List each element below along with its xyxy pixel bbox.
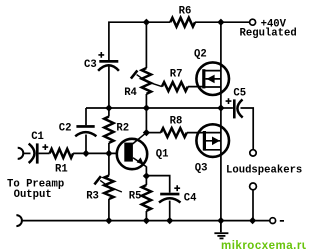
junction emitter node xyxy=(143,172,150,179)
resistor R6 xyxy=(170,18,195,27)
svg-text:C4: C4 xyxy=(184,193,197,205)
junction rail at C4 xyxy=(166,217,173,224)
svg-text:mikrocxema.ru: mikrocxema.ru xyxy=(221,240,306,251)
junction rail at ground xyxy=(217,217,224,224)
potentiometer R4 xyxy=(131,22,162,108)
svg-text:C3: C3 xyxy=(84,59,97,71)
wire emitter node to C4 xyxy=(146,176,169,193)
junction mid wire at R2 xyxy=(105,104,112,111)
transistor Q1 xyxy=(117,133,147,170)
wire base (input node) xyxy=(73,152,125,154)
svg-text:C2: C2 xyxy=(59,122,72,134)
svg-text:R3: R3 xyxy=(86,190,99,202)
svg-text:Q1: Q1 xyxy=(156,148,169,160)
junction mid wire at R4 xyxy=(143,104,150,111)
svg-text:R2: R2 xyxy=(116,123,129,135)
svg-text:C1: C1 xyxy=(31,131,44,143)
junction rail at R3 xyxy=(105,217,112,224)
wire right vertical (Q2-Q3 channel) xyxy=(220,22,222,220)
resistor R8 xyxy=(146,128,204,137)
wire Q1 emitter down xyxy=(145,167,147,177)
wire top rail right segment xyxy=(195,21,249,23)
junction top rail at R4 xyxy=(143,19,150,26)
input jack top xyxy=(18,148,24,159)
svg-text:R6: R6 xyxy=(179,5,192,17)
wire C3 to mid rail xyxy=(108,67,110,109)
svg-text:Loudspeakers: Loudspeakers xyxy=(226,165,302,177)
capacitor C1 xyxy=(29,143,49,163)
wire C5 to speaker terminal xyxy=(241,108,254,149)
svg-text:R5: R5 xyxy=(129,191,142,203)
wire C2 top lead xyxy=(85,108,87,125)
svg-text:R4: R4 xyxy=(124,87,137,99)
terminal loudspeaker top xyxy=(250,150,256,156)
ground xyxy=(214,221,228,239)
resistor R7 xyxy=(162,82,204,91)
resistor R5 xyxy=(142,176,151,221)
svg-text:Q3: Q3 xyxy=(195,162,208,174)
wire jack to C1 xyxy=(23,152,30,154)
resistor R1 xyxy=(50,149,74,158)
label minus xyxy=(280,220,284,222)
svg-text:R8: R8 xyxy=(170,115,183,127)
svg-text:C5: C5 xyxy=(233,87,246,99)
wire C1 to R1 xyxy=(39,152,50,154)
svg-text:Regulated: Regulated xyxy=(240,28,297,40)
wire mid horizontal (output node) xyxy=(86,107,221,109)
wire speaker terminal to rail xyxy=(252,190,254,221)
svg-text:R7: R7 xyxy=(170,69,183,81)
terminal loudspeaker bottom xyxy=(250,183,257,190)
junction mid wire at C5 xyxy=(217,104,224,111)
wire C2 bottom lead xyxy=(85,135,87,154)
wire top rail left segment xyxy=(109,22,170,60)
junction base wire at C2 xyxy=(82,150,89,157)
junction top rail at Q2 drain xyxy=(217,19,224,26)
wire Q1 collector to R8 node xyxy=(145,108,147,133)
terminal +40V xyxy=(250,19,256,25)
capacitor C3 xyxy=(98,52,119,71)
capacitor C2 xyxy=(75,125,96,136)
capacitor C5 xyxy=(221,98,243,118)
junction R8 node xyxy=(143,129,150,136)
transistor Q3 xyxy=(196,124,229,157)
svg-text:Output: Output xyxy=(14,189,52,201)
wire C4 to rail xyxy=(169,201,171,221)
capacitor C4 xyxy=(159,185,181,202)
junction rail at speaker return xyxy=(249,217,256,224)
input jack bottom xyxy=(16,215,22,226)
bottom rail xyxy=(22,220,270,222)
terminal minus xyxy=(270,218,276,224)
junction base wire at R2 xyxy=(105,150,112,157)
resistor R3 (variable) xyxy=(94,153,122,220)
svg-text:Q2: Q2 xyxy=(194,49,207,61)
junction rail at R5 xyxy=(143,217,150,224)
resistor R2 xyxy=(104,108,113,153)
svg-text:R1: R1 xyxy=(55,163,68,175)
transistor Q2 xyxy=(196,62,229,95)
